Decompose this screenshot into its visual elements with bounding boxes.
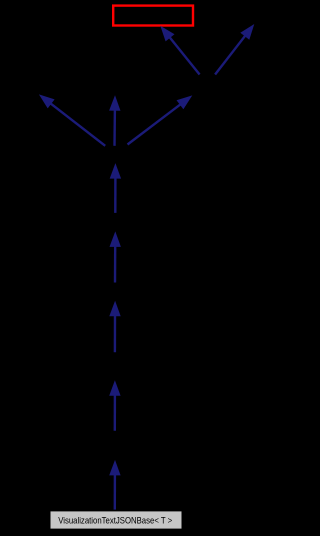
edge G->B9 (109, 460, 120, 510)
edge B3->B4 (109, 95, 120, 146)
edge B2->RED (160, 26, 199, 75)
node RED (highlighted base class, top) (113, 6, 193, 26)
edge B2->B1 (215, 24, 254, 75)
edge B7->B6 (110, 231, 121, 282)
edge B9->B8 (109, 380, 120, 430)
edge B3->B5 (39, 94, 105, 145)
svg-text:VisualizationTextJSONBase< T >: VisualizationTextJSONBase< T > (58, 516, 172, 527)
edge B6->B3 (110, 163, 121, 213)
node VisualizationTextJSONBase< T > (current class, bottom) (50, 511, 182, 529)
edge B3->B2 (128, 95, 193, 144)
edge B8->B7 (109, 301, 120, 352)
